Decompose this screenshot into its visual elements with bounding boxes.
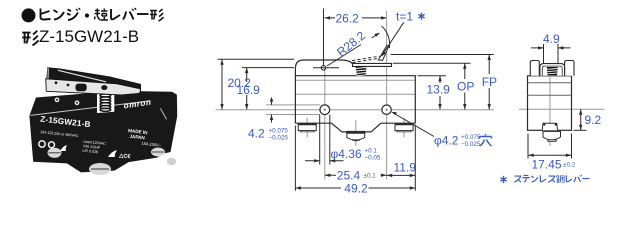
plunger spring: [356, 66, 367, 76]
svg-text:−0.05: −0.05: [365, 155, 381, 162]
hinge pin: [321, 66, 325, 70]
screw below: [543, 131, 561, 140]
svg-text:16.9: 16.9: [237, 83, 261, 97]
body outline: [295, 60, 353, 123]
lever tip (free position): [378, 45, 388, 60]
svg-text:4.2: 4.2: [248, 127, 265, 141]
svg-text:26.2: 26.2: [336, 11, 360, 25]
body: [528, 76, 572, 131]
svg-text:+0.075: +0.075: [461, 134, 481, 141]
made in japan: [127, 128, 148, 141]
left hole vertical centerline: [324, 70, 326, 180]
title line 1: [22, 8, 164, 22]
svg-text:−0.025: −0.025: [461, 141, 481, 148]
svg-text:±0.1: ±0.1: [364, 172, 377, 179]
OP line: [393, 62, 471, 64]
title line 2: [22, 27, 139, 46]
slot tangent lines: [266, 105, 320, 115]
footnote: [500, 175, 589, 183]
terminals: [48, 148, 177, 176]
svg-text:△C€: △C€: [118, 152, 132, 160]
svg-text:±0.2: ±0.2: [563, 161, 576, 168]
svg-text:25.4: 25.4: [337, 168, 361, 182]
terminal screw middle: [346, 132, 365, 141]
dim 49.2: [295, 125, 415, 191]
svg-text:49.2: 49.2: [344, 181, 368, 195]
dim 26.2: [323, 9, 325, 66]
centerline horizontal through holes: [216, 109, 495, 111]
dim phi4.36: [320, 115, 330, 165]
svg-text:φ4.2: φ4.2: [434, 134, 459, 148]
mounting hole (right): [382, 105, 391, 114]
svg-text:9.2: 9.2: [585, 113, 602, 127]
top face screw dots: [55, 97, 60, 102]
phi4.2 hole label: [393, 113, 435, 137]
centerlines: [519, 108, 605, 110]
svg-text:17.45: 17.45: [532, 157, 562, 171]
terminal plate: [542, 123, 557, 130]
dim 16.9: [242, 67, 294, 69]
spring coil: [100, 94, 111, 111]
terminal screw left: [298, 124, 316, 132]
back ridge band behind lever: [46, 67, 141, 93]
lever (operating position): [353, 63, 392, 66]
right hole vertical centerline: [386, 11, 388, 180]
dim 11.9: [387, 174, 416, 176]
svg-text:+0.075: +0.075: [269, 128, 289, 135]
FP line: [391, 54, 494, 56]
seam lines: [295, 80, 415, 94]
dim 17.45: [528, 134, 572, 159]
lever slot + hole + rivets: [76, 84, 87, 92]
svg-text:OP: OP: [457, 80, 474, 94]
terminal screw right: [395, 124, 413, 132]
rating small texts: [38, 130, 162, 161]
svg-text:+0.1: +0.1: [365, 148, 378, 155]
svg-text:φ4.36: φ4.36: [331, 147, 362, 161]
mounting slot (left): [320, 105, 330, 115]
svg-text:11.9: 11.9: [394, 161, 417, 175]
switch body black mass: [29, 91, 177, 173]
svg-text:R28.2: R28.2: [334, 28, 368, 59]
svg-text:13.9: 13.9: [427, 83, 451, 97]
side spring: [547, 67, 558, 75]
top-right face separation: [160, 108, 166, 119]
R arc: [382, 26, 390, 48]
svg-text:−0.025: −0.025: [269, 135, 289, 142]
dim 4.9: [544, 44, 559, 64]
lever channel: [540, 64, 565, 76]
metal lever: [46, 79, 141, 95]
svg-text:t=1: t=1: [396, 10, 413, 24]
dim 20.2: [218, 58, 295, 60]
top edge highlight: [31, 101, 151, 116]
svg-text:FP: FP: [482, 75, 497, 89]
lever free position dashed: [352, 56, 380, 62]
lever side tabs: [530, 61, 539, 76]
approval logos: [39, 141, 117, 157]
dim 9.2: [574, 129, 587, 131]
spring notch white: [97, 92, 114, 113]
svg-text:Z-15GW21-B: Z-15GW21-B: [39, 27, 139, 46]
dim 25.4: [325, 174, 387, 176]
dim 4.2 tolerance (slot height): [271, 98, 273, 123]
screw centerlines: [307, 118, 404, 146]
svg-text:4.9: 4.9: [543, 32, 560, 46]
dim 13.9: [418, 75, 447, 77]
